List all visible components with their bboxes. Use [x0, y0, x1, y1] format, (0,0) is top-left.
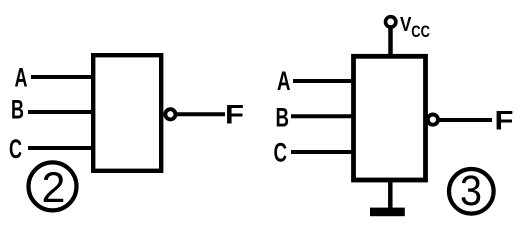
svg-text:V: V: [400, 14, 412, 36]
svg-text:C: C: [9, 134, 22, 164]
svg-text:A: A: [277, 66, 291, 96]
svg-text:CC: CC: [411, 23, 430, 41]
Vcc label: [400, 14, 430, 41]
figure number 3: [449, 167, 494, 215]
svg-text:F: F: [225, 100, 244, 130]
svg-text:3: 3: [460, 167, 482, 215]
inversion bubble (gate 3 output): [428, 115, 438, 125]
wire input C (gate 3): [291, 150, 353, 154]
gate U3 body: [354, 56, 426, 180]
svg-text:B: B: [276, 103, 290, 133]
svg-text:F: F: [495, 106, 514, 136]
Vcc terminal circle: [386, 17, 396, 27]
inversion bubble (gate 2 output): [165, 109, 175, 119]
wire input A (gate 3): [293, 79, 353, 83]
svg-text:A: A: [15, 63, 28, 93]
ground bar: [370, 208, 405, 217]
wire gate 3 to ground: [388, 181, 393, 209]
wire output F (gate 3): [440, 118, 493, 122]
gate U2 body: [93, 55, 161, 171]
wire Vcc to gate 3: [388, 27, 393, 57]
svg-text:2: 2: [42, 164, 66, 212]
wire input B (gate 2): [28, 110, 93, 114]
svg-text:C: C: [274, 138, 288, 168]
wire input A (gate 2): [31, 75, 93, 79]
svg-text:B: B: [11, 95, 24, 125]
wire input B (gate 3): [291, 114, 353, 118]
wire input C (gate 2): [28, 146, 93, 150]
wire output F (gate 2): [177, 112, 225, 116]
figure number 2: [29, 162, 77, 212]
